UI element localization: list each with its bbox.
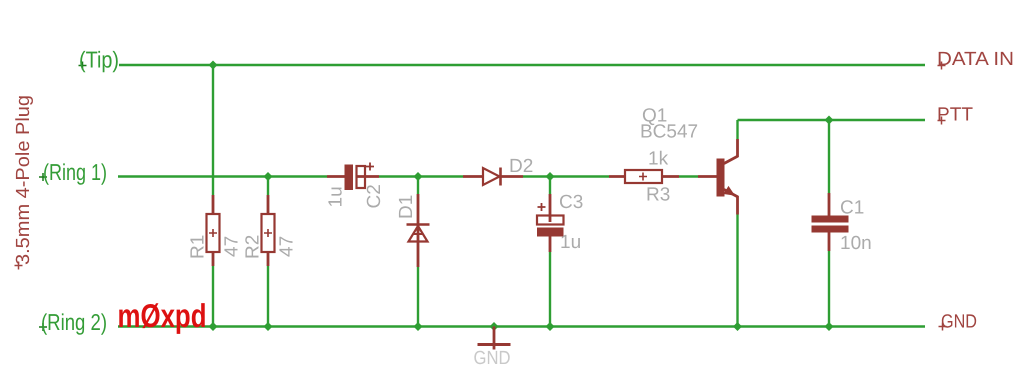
svg-text:R1: R1 — [188, 235, 209, 259]
svg-text:R2: R2 — [243, 235, 264, 259]
svg-text:47: 47 — [222, 236, 243, 257]
svg-text:C3: C3 — [559, 192, 583, 213]
svg-text:(Ring 1): (Ring 1) — [43, 159, 107, 185]
svg-text:1u: 1u — [560, 232, 581, 253]
svg-text:1k: 1k — [648, 149, 669, 170]
svg-text:3.5mm 4-Pole Plug: 3.5mm 4-Pole Plug — [13, 95, 34, 265]
svg-text:C1: C1 — [840, 198, 864, 219]
svg-text:D1: D1 — [396, 195, 417, 219]
svg-text:(Ring 2): (Ring 2) — [41, 309, 107, 335]
svg-text:GND: GND — [941, 312, 977, 333]
svg-text:GND: GND — [474, 348, 511, 369]
svg-text:47: 47 — [277, 236, 298, 257]
svg-text:R3: R3 — [646, 185, 670, 206]
svg-text:(Tip): (Tip) — [79, 47, 119, 73]
svg-text:PTT: PTT — [937, 105, 973, 126]
svg-text:1u: 1u — [326, 186, 347, 207]
svg-text:BC547: BC547 — [640, 122, 698, 143]
svg-text:10n: 10n — [840, 233, 872, 254]
svg-text:DATA IN: DATA IN — [937, 49, 1014, 70]
svg-text:mØxpd: mØxpd — [118, 297, 207, 334]
svg-text:C2: C2 — [364, 184, 385, 208]
svg-text:D2: D2 — [509, 156, 533, 177]
